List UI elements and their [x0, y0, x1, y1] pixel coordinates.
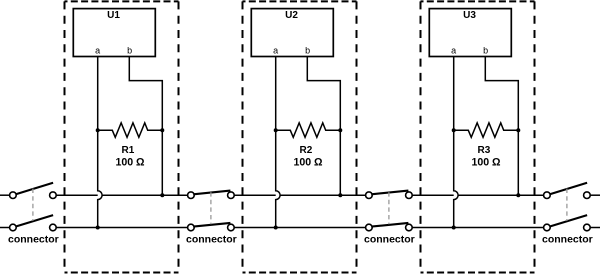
- connector 1 switch lever (bottom pole): [16, 215, 53, 226]
- value label 100 ohm for R2: [293, 156, 323, 168]
- connector 4 switch lever (bottom pole): [550, 215, 587, 226]
- svg-text:connector: connector: [186, 233, 237, 245]
- wire: U1 pin a down to bottom bus (hops over top bus): [98, 57, 102, 228]
- junction dot: R2 left lead on pin-a wire: [274, 128, 278, 132]
- connector 3 switch lever (top pole): [371, 191, 408, 195]
- svg-text:connector: connector: [364, 233, 415, 245]
- resistor R2: [276, 123, 341, 137]
- svg-text:R2: R2: [300, 145, 313, 156]
- IC U1: [73, 9, 155, 57]
- svg-text:a: a: [451, 45, 456, 55]
- svg-text:U2: U2: [285, 10, 298, 21]
- connector 4 mechanical coupling (dashed): [566, 189, 568, 221]
- connector 2 switch lever (bottom pole): [193, 223, 230, 227]
- connector 1 mechanical coupling (dashed): [32, 189, 34, 221]
- label R2: [300, 145, 313, 156]
- dashed enclosure block 3: [421, 1, 535, 272]
- junction dot: pin-b wire meets top bus: [160, 193, 164, 197]
- connector 3 terminal circles (top pole): [366, 192, 413, 199]
- dashed enclosure block 1: [65, 1, 179, 272]
- connector 1 terminal circles (bottom pole): [10, 224, 57, 231]
- wire: U3 pin a down to bottom bus (hops over top bus): [454, 57, 458, 228]
- IC U2: [251, 9, 333, 57]
- connector 3 mechanical coupling (dashed): [388, 192, 390, 224]
- pin label b of U3: [483, 45, 488, 55]
- svg-text:b: b: [127, 45, 132, 55]
- label connector 1: [8, 233, 59, 245]
- wire: top bus segment 280.1-365.6: [280, 194, 366, 196]
- svg-text:connector: connector: [8, 233, 59, 245]
- svg-text:connector: connector: [542, 233, 593, 245]
- pin label b of U2: [305, 45, 310, 55]
- wire: bottom bus segment 0-9.6: [0, 227, 10, 229]
- junction dot: R3 left lead on pin-a wire: [452, 128, 456, 132]
- wire: top bus segment 56.2-97.7: [56, 194, 97, 196]
- value label 100 ohm for R3: [471, 156, 501, 168]
- connector 1 terminal circles (top pole): [10, 192, 57, 199]
- wire: U3 pin b jog right then down to top bus: [485, 57, 518, 196]
- connector 1 switch lever (top pole): [16, 183, 53, 194]
- junction dot: pin-b wire meets top bus: [516, 193, 520, 197]
- junction dot: R3 right lead on pin-b wire: [516, 128, 520, 132]
- junction dot: R2 right lead on pin-b wire: [338, 128, 342, 132]
- connector 4 terminal circles (top pole): [544, 192, 591, 199]
- junction dot: R1 right lead on pin-b wire: [160, 128, 164, 132]
- junction dot: pin-a wire meets bottom bus: [96, 226, 100, 230]
- junction dot: pin-a wire meets bottom bus: [274, 226, 278, 230]
- svg-text:a: a: [273, 45, 278, 55]
- junction dot: pin-a wire meets bottom bus: [452, 226, 456, 230]
- label connector 4: [542, 233, 593, 245]
- svg-text:R1: R1: [122, 145, 135, 156]
- label connector 3: [364, 233, 415, 245]
- wire: top bus segment 234.2-275.7: [234, 194, 276, 196]
- svg-text:100 Ω: 100 Ω: [115, 156, 145, 168]
- junction dot: pin-b wire meets top bus: [338, 193, 342, 197]
- wire: bottom bus segment 412.2-543.6: [412, 227, 543, 229]
- connector 2 terminal circles (top pole): [188, 192, 235, 199]
- wire: U2 pin a down to bottom bus (hops over top bus): [276, 57, 280, 228]
- wire: top bus segment 458.1-543.6: [458, 194, 543, 196]
- wire: bottom bus segment 590.2-600: [590, 227, 600, 229]
- wire: U1 pin b jog right then down to top bus: [129, 57, 162, 196]
- svg-text:a: a: [95, 45, 100, 55]
- svg-text:100 Ω: 100 Ω: [293, 156, 323, 168]
- connector 4 terminal circles (bottom pole): [544, 224, 591, 231]
- svg-text:R3: R3: [478, 145, 491, 156]
- connector 2 switch lever (top pole): [193, 191, 230, 195]
- label R3: [478, 145, 491, 156]
- pin label a of U3: [451, 45, 456, 55]
- svg-text:b: b: [483, 45, 488, 55]
- wire: U2 pin b jog right then down to top bus: [307, 57, 340, 196]
- value label 100 ohm for R1: [115, 156, 145, 168]
- wire: top bus segment 102.1-187.6: [102, 194, 188, 196]
- wire: bottom bus segment 56.2-187.6: [56, 227, 187, 229]
- wire: bottom bus segment 234.2-365.6: [234, 227, 365, 229]
- svg-text:U1: U1: [107, 10, 120, 21]
- connector 4 switch lever (top pole): [550, 183, 587, 194]
- resistor R3: [454, 123, 519, 137]
- dashed enclosure block 2: [243, 1, 357, 272]
- connector 3 switch lever (bottom pole): [371, 223, 408, 227]
- connector 3 terminal circles (bottom pole): [366, 224, 413, 231]
- connector 2 mechanical coupling (dashed): [210, 192, 212, 224]
- wire: top bus segment 412.2-453.7: [412, 194, 454, 196]
- connector 2 terminal circles (bottom pole): [188, 224, 235, 231]
- svg-text:100 Ω: 100 Ω: [471, 156, 501, 168]
- junction dot: R1 left lead on pin-a wire: [96, 128, 100, 132]
- svg-text:U3: U3: [463, 10, 476, 21]
- pin label b of U1: [127, 45, 132, 55]
- label connector 2: [186, 233, 237, 245]
- IC U3: [429, 9, 511, 57]
- pin label a of U2: [273, 45, 278, 55]
- wire: top bus segment 590.2-600: [590, 194, 600, 196]
- resistor R1: [98, 123, 163, 137]
- wire: top bus segment 0-9.6: [0, 194, 10, 196]
- svg-text:b: b: [305, 45, 310, 55]
- pin label a of U1: [95, 45, 100, 55]
- label R1: [122, 145, 135, 156]
